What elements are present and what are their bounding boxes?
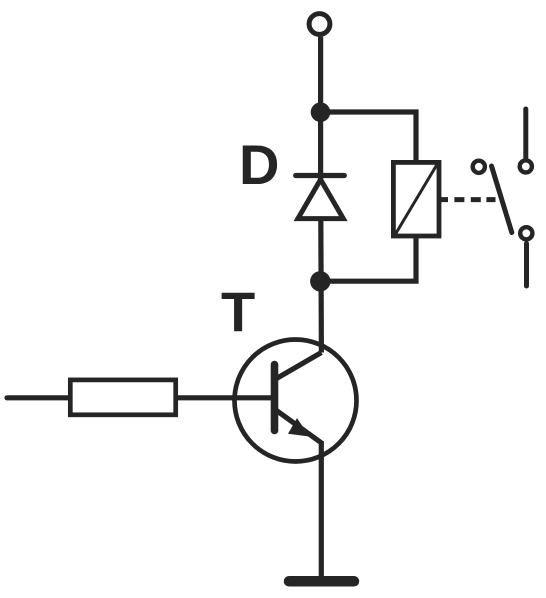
- svg-text:T: T: [221, 280, 255, 343]
- svg-text:D: D: [239, 133, 279, 196]
